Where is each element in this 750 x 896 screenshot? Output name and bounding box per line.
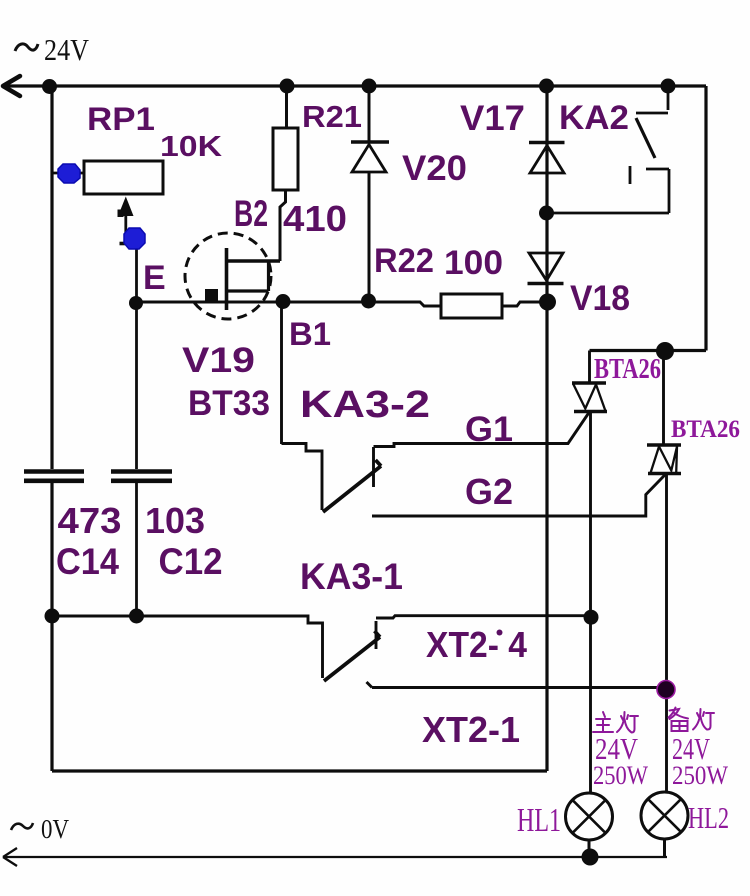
svg-text:RP1: RP1 [87, 101, 155, 137]
svg-text:10K: 10K [160, 131, 222, 163]
svg-text:XT2- 4: XT2- 4 [426, 624, 527, 665]
svg-text:24V: 24V [44, 32, 90, 67]
svg-text:HL1: HL1 [517, 802, 561, 839]
svg-text:C12: C12 [159, 541, 223, 582]
svg-text:250W: 250W [593, 761, 648, 790]
svg-text:V19: V19 [182, 341, 255, 380]
svg-text:R21: R21 [302, 99, 362, 134]
svg-text:KA3-1: KA3-1 [300, 556, 403, 597]
svg-text:XT2-1: XT2-1 [422, 709, 520, 750]
svg-text:V17: V17 [460, 99, 525, 138]
svg-text:250W: 250W [672, 761, 728, 790]
svg-text:BT33: BT33 [188, 384, 270, 423]
svg-text:R22: R22 [374, 242, 434, 280]
svg-text:KA2: KA2 [559, 99, 629, 137]
svg-text:0V: 0V [41, 814, 69, 844]
svg-text:HL2: HL2 [688, 800, 729, 835]
svg-text:103: 103 [145, 500, 205, 541]
svg-text:V18: V18 [570, 279, 630, 318]
svg-text:BTA26: BTA26 [594, 354, 661, 385]
svg-text:473: 473 [58, 500, 122, 541]
svg-text:KA3-2: KA3-2 [300, 384, 430, 426]
svg-text:G2: G2 [465, 471, 513, 512]
svg-text:E: E [143, 259, 166, 297]
svg-text:G1: G1 [465, 410, 513, 449]
svg-text:C14: C14 [56, 541, 119, 582]
svg-text:410: 410 [283, 198, 347, 239]
svg-text:BTA26: BTA26 [671, 416, 740, 443]
svg-text:B2: B2 [234, 193, 268, 234]
svg-text:B1: B1 [289, 316, 331, 352]
svg-text:V20: V20 [402, 149, 467, 188]
svg-text:100: 100 [444, 244, 503, 282]
